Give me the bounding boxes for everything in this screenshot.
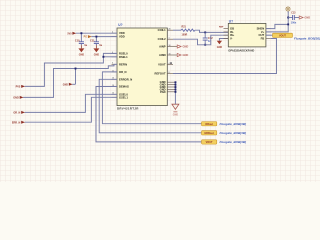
svg-text:VOUT: VOUT [206, 141, 213, 144]
svg-text:C11: C11 [90, 40, 95, 43]
svg-text:1u: 1u [99, 44, 102, 47]
junction dot [95, 36, 97, 38]
svg-text:5: 5 [112, 63, 113, 65]
svg-text:OPA2320AIDCKR-ND: OPA2320AIDCKR-ND [228, 48, 254, 52]
junction GND branch [75, 68, 77, 70]
svg-text:Fluxgate_BOB[3B]: Fluxgate_BOB[3B] [220, 131, 248, 135]
svg-text:FB: FB [261, 37, 265, 41]
wire branch RSEL1 [103, 56, 117, 58]
U1 left pin labels [119, 31, 132, 99]
ground arrow top right [299, 16, 303, 19]
port OR bottom [202, 122, 217, 126]
svg-text:U?: U? [118, 23, 122, 27]
svg-text:C13: C13 [291, 13, 296, 15]
capacitor C13 100n [292, 15, 294, 20]
svg-text:PG: PG [84, 37, 88, 39]
junction 5V rail / SHDN [287, 23, 289, 25]
svg-text:1: 1 [169, 38, 170, 40]
power arrow 3V3 [88, 35, 92, 38]
ground symbol under U1 [172, 104, 179, 109]
svg-text:16: 16 [169, 45, 171, 47]
svg-text:Fluxgate_BOB[3B]: Fluxgate_BOB[3B] [220, 122, 248, 126]
port VOUT top right [266, 34, 273, 36]
U2 pin labels [230, 27, 235, 41]
svg-text:GND: GND [94, 53, 100, 56]
wire COIL1 to resistor [173, 29, 181, 31]
wire VDD rail 2 [91, 36, 117, 38]
op-amp U2 body [228, 23, 266, 47]
svg-text:GND: GND [173, 113, 179, 116]
svg-text:PV5: PV5 [16, 86, 21, 89]
svg-text:OR_N: OR_N [13, 112, 20, 115]
wire U1 GND pins collector [174, 82, 176, 104]
power arrow PV left [21, 85, 25, 88]
svg-text:20: 20 [169, 29, 171, 31]
junction RSEL [102, 56, 104, 58]
wire RSEL path from PV arrow [25, 53, 117, 86]
U2 pin stubs [224, 29, 271, 39]
svg-text:R21: R21 [182, 26, 187, 29]
svg-text:COIL2: COIL2 [158, 37, 166, 41]
svg-text:PAD: PAD [160, 90, 166, 94]
U1 pin stubs left [112, 33, 118, 97]
capacitor C12 1n [203, 32, 213, 44]
svg-text:AINP: AINP [159, 45, 166, 49]
svg-text:REFIN: REFIN [119, 62, 127, 66]
svg-text:1u: 1u [84, 44, 87, 47]
wire REFIN path from GND arrow [23, 64, 117, 97]
port VOUT bottom [202, 140, 217, 144]
wire OR_N to port1 [102, 72, 201, 124]
junction C12/COIL2 [204, 44, 206, 46]
svg-text:U?: U? [229, 19, 233, 23]
svg-text:ORout: ORout [205, 123, 213, 126]
svg-text:GND: GND [13, 97, 19, 100]
power arrow 5V0 top-left [72, 32, 76, 35]
svg-text:REFOUT: REFOUT [155, 72, 166, 76]
svg-text:DEMAG: DEMAG [119, 85, 129, 89]
wire VDD rail 1 [76, 32, 117, 34]
svg-text:VOUT: VOUT [158, 63, 166, 67]
wire DEMAG to port3 [96, 87, 202, 142]
svg-text:REF: REF [219, 27, 224, 29]
sheet background [0, 0, 320, 182]
svg-text:ERRout: ERRout [205, 132, 214, 135]
power arrow GND left [20, 96, 24, 99]
ground for U2 V- [219, 39, 228, 41]
svg-text:VDD: VDD [119, 35, 125, 39]
svg-text:COIL1: COIL1 [158, 28, 166, 32]
wire COIL2 detour to U2 IN+ [173, 35, 228, 45]
resistor R21 100R [181, 29, 195, 31]
svg-text:RSEL0: RSEL0 [119, 51, 128, 55]
wire resistor to U2 [195, 30, 229, 32]
svg-text:15: 15 [169, 53, 171, 55]
junction dot [80, 32, 82, 34]
capacitor C10 [75, 33, 88, 48]
wire GSEL0 from left arrow [25, 94, 117, 112]
ground arrow AINN [176, 54, 179, 56]
IC U1 DRV421 body [117, 28, 167, 106]
svg-text:8: 8 [169, 72, 170, 74]
U1 pin stubs right [167, 30, 177, 92]
svg-text:Fluxgate_BOB[3B]: Fluxgate_BOB[3B] [220, 140, 248, 144]
port ERROR bottom [202, 131, 217, 135]
svg-text:GSEL1: GSEL1 [119, 95, 128, 99]
wire REFOUT to U2 FB [173, 39, 277, 74]
svg-text:DRV421RTJR: DRV421RTJR [117, 107, 139, 111]
svg-text:GND: GND [183, 53, 189, 57]
svg-text:GND: GND [217, 46, 223, 49]
svg-text:Fluxgate_BOB[3B]: Fluxgate_BOB[3B] [294, 36, 320, 40]
svg-text:VOUT: VOUT [279, 35, 286, 38]
svg-text:GND: GND [183, 45, 189, 49]
wire U2 V+ to rail [266, 13, 288, 32]
svg-text:OR_N: OR_N [119, 70, 127, 74]
wire ERROR_N to port2 [99, 79, 201, 133]
wire cap to GND arrow [295, 17, 300, 19]
power port circle top right [286, 7, 290, 11]
svg-text:GND: GND [304, 16, 310, 20]
svg-text:RSEL1: RSEL1 [119, 55, 128, 59]
svg-text:5V0: 5V0 [67, 33, 72, 35]
junction 5V rail / C13 [287, 17, 289, 19]
wire GSEL1 from left arrow [25, 97, 117, 122]
svg-text:VDD: VDD [119, 31, 125, 35]
junction dots GND pins [175, 81, 177, 83]
svg-text:GND: GND [63, 84, 68, 86]
no-erc mark on VOUT pin [170, 62, 172, 64]
svg-text:AINN: AINN [159, 53, 166, 57]
svg-text:GND: GND [79, 53, 85, 56]
svg-text:ERR_N: ERR_N [12, 121, 21, 124]
svg-text:100n: 100n [291, 22, 297, 25]
wire to capacitor C13 [288, 17, 292, 19]
ground arrow AINP [176, 46, 179, 48]
svg-text:ERROR_N: ERROR_N [119, 77, 132, 81]
U1 right pin labels [155, 28, 167, 94]
svg-text:V-: V- [230, 37, 233, 41]
wire U2 SHDN jog to V+ rail [266, 24, 288, 28]
svg-text:100R: 100R [182, 34, 188, 37]
ground under C10 [78, 48, 84, 56]
svg-text:C10: C10 [75, 40, 80, 43]
capacitor C11 [90, 37, 103, 49]
U1 pin numbers [112, 29, 171, 95]
junction node A [204, 31, 206, 33]
ground under C11 [93, 48, 99, 56]
ground arrow mid branch [75, 69, 77, 85]
